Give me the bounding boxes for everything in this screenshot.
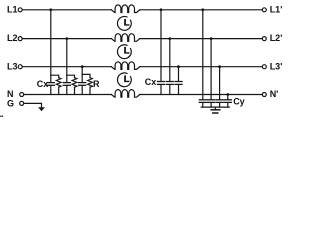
- choke winding L2: [111, 34, 139, 42]
- wire N left segment: [24, 94, 112, 96]
- wire Cx3 drop: [81, 67, 83, 83]
- terminal L3': [262, 65, 266, 69]
- wire L2 right segment: [140, 38, 262, 40]
- terminal L1: [18, 8, 22, 12]
- svg-text:Cy: Cy: [233, 96, 245, 106]
- terminal N: [20, 93, 24, 97]
- wire Cy3 drop: [219, 67, 221, 100]
- svg-text:R: R: [93, 79, 100, 89]
- wire G stub: [24, 103, 42, 107]
- wire Cy4 drop: [227, 95, 229, 100]
- svg-text:L3: L3: [7, 61, 18, 71]
- node L1/Cx1: [49, 8, 52, 11]
- svg-text:L3': L3': [270, 61, 283, 71]
- resistor R1: [56, 78, 61, 88]
- terminal L1': [262, 8, 266, 12]
- resistor R3: [88, 78, 93, 88]
- svg-text:L1: L1: [7, 4, 18, 14]
- core symbol circled-L 2: [117, 45, 131, 59]
- chassis arrow under G: [38, 107, 45, 111]
- wire N right segment: [140, 94, 262, 96]
- earth ground: [214, 107, 216, 109]
- node L2/Cx5: [168, 37, 171, 40]
- choke winding N: [111, 90, 139, 98]
- svg-text:L: L: [124, 17, 130, 28]
- capacitor Cx6: [175, 81, 182, 83]
- wire stub resistor R3: [82, 74, 90, 77]
- wire Cy2 drop: [210, 39, 212, 100]
- capacitor Cx5: [166, 81, 173, 83]
- terminal N': [262, 93, 266, 97]
- terminal L2: [18, 37, 22, 41]
- wire Cx2 drop: [66, 39, 68, 83]
- wire L2 left segment: [22, 38, 111, 40]
- node L2/Cy2: [210, 37, 213, 40]
- core symbol circled-L 3: [117, 73, 131, 87]
- svg-text:N': N': [270, 89, 279, 99]
- wire Cx1 drop: [50, 10, 52, 83]
- wire Cx5 drop: [169, 39, 171, 82]
- terminal G: [20, 101, 24, 105]
- choke winding L3: [111, 62, 139, 70]
- capacitor Cx4: [158, 81, 165, 83]
- svg-text:L: L: [124, 74, 130, 85]
- svg-text:N: N: [7, 89, 14, 99]
- corner pixels: [0, 116, 1, 118]
- svg-text:L1': L1': [270, 4, 283, 14]
- terminal L2': [262, 37, 266, 41]
- wire Cy1 drop: [202, 10, 204, 100]
- capacitor Cy1: [199, 99, 206, 101]
- wire Cx6 drop: [178, 67, 180, 82]
- ground bus: [201, 106, 229, 108]
- svg-text:L2: L2: [7, 33, 18, 43]
- capacitor Cx2: [63, 82, 70, 84]
- svg-text:L: L: [124, 46, 130, 57]
- node L3/Cx3: [81, 65, 84, 68]
- capacitor Cx3: [79, 82, 86, 84]
- svg-text:Cx: Cx: [37, 79, 49, 89]
- resistor R2: [72, 78, 77, 88]
- node L2/Cx2: [65, 37, 68, 40]
- wire Cx4 drop: [160, 10, 162, 81]
- capacitor Cy2: [208, 99, 215, 101]
- core symbol circled-L 1: [117, 16, 131, 30]
- wire L3 left segment: [22, 66, 111, 68]
- node L1/Cy1: [201, 8, 204, 11]
- wire stub resistor R2: [67, 75, 75, 77]
- node N/Cy4: [226, 93, 229, 96]
- node L1/Cx4: [160, 8, 163, 11]
- wire stub resistor R1: [51, 75, 59, 77]
- capacitor Cy4: [224, 99, 231, 101]
- node L3/Cx6: [177, 65, 180, 68]
- wire L1 left segment: [22, 9, 111, 11]
- capacitor Cy3: [216, 99, 223, 101]
- wire L3 right segment: [140, 66, 262, 68]
- capacitor Cx1: [47, 82, 54, 84]
- svg-text:L2': L2': [270, 33, 283, 43]
- svg-text:G: G: [7, 98, 14, 108]
- terminal L3: [18, 65, 22, 69]
- choke winding L1: [111, 5, 139, 13]
- wire L1 right segment: [140, 9, 262, 11]
- svg-text:Cx: Cx: [145, 77, 157, 87]
- node L3/Cy3: [218, 65, 221, 68]
